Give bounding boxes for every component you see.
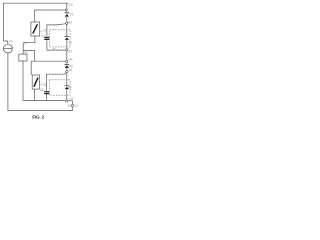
svg-text:36: 36 — [43, 83, 47, 87]
svg-text:60: 60 — [70, 97, 74, 101]
svg-text:58: 58 — [68, 86, 72, 90]
svg-text:62: 62 — [68, 104, 72, 108]
svg-text:22: 22 — [43, 29, 47, 33]
svg-text:42: 42 — [24, 50, 28, 54]
svg-text:44: 44 — [69, 58, 73, 62]
svg-text:16: 16 — [24, 41, 28, 45]
svg-text:26: 26 — [70, 12, 74, 16]
svg-text:34: 34 — [41, 34, 45, 38]
svg-text:28: 28 — [68, 20, 72, 24]
svg-text:30: 30 — [68, 41, 72, 45]
svg-text:56: 56 — [40, 88, 44, 92]
svg-text:64: 64 — [75, 104, 79, 108]
svg-text:48: 48 — [68, 68, 72, 72]
svg-text:32: 32 — [69, 49, 73, 53]
svg-text:50: 50 — [53, 47, 57, 51]
svg-text:20: 20 — [69, 3, 73, 7]
svg-text:FIG. 2: FIG. 2 — [32, 114, 44, 119]
svg-text:40: 40 — [9, 39, 13, 43]
